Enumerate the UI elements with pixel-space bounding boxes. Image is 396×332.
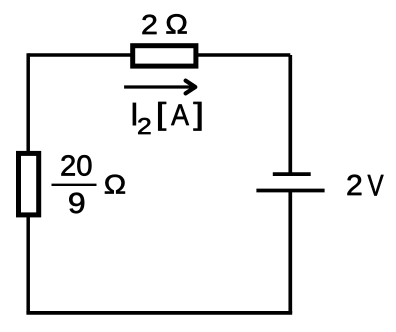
svg-text:2: 2 (141, 10, 158, 41)
svg-text:V: V (368, 168, 385, 202)
svg-text:Ω: Ω (104, 170, 126, 200)
svg-text:2: 2 (346, 170, 363, 202)
svg-text:20: 20 (60, 151, 92, 183)
svg-text:9: 9 (68, 189, 86, 220)
svg-text:[: [ (156, 98, 167, 131)
svg-text:]: ] (193, 97, 204, 131)
svg-text:A: A (171, 99, 189, 133)
svg-text:2: 2 (137, 113, 152, 139)
svg-text:Ω: Ω (165, 9, 188, 40)
